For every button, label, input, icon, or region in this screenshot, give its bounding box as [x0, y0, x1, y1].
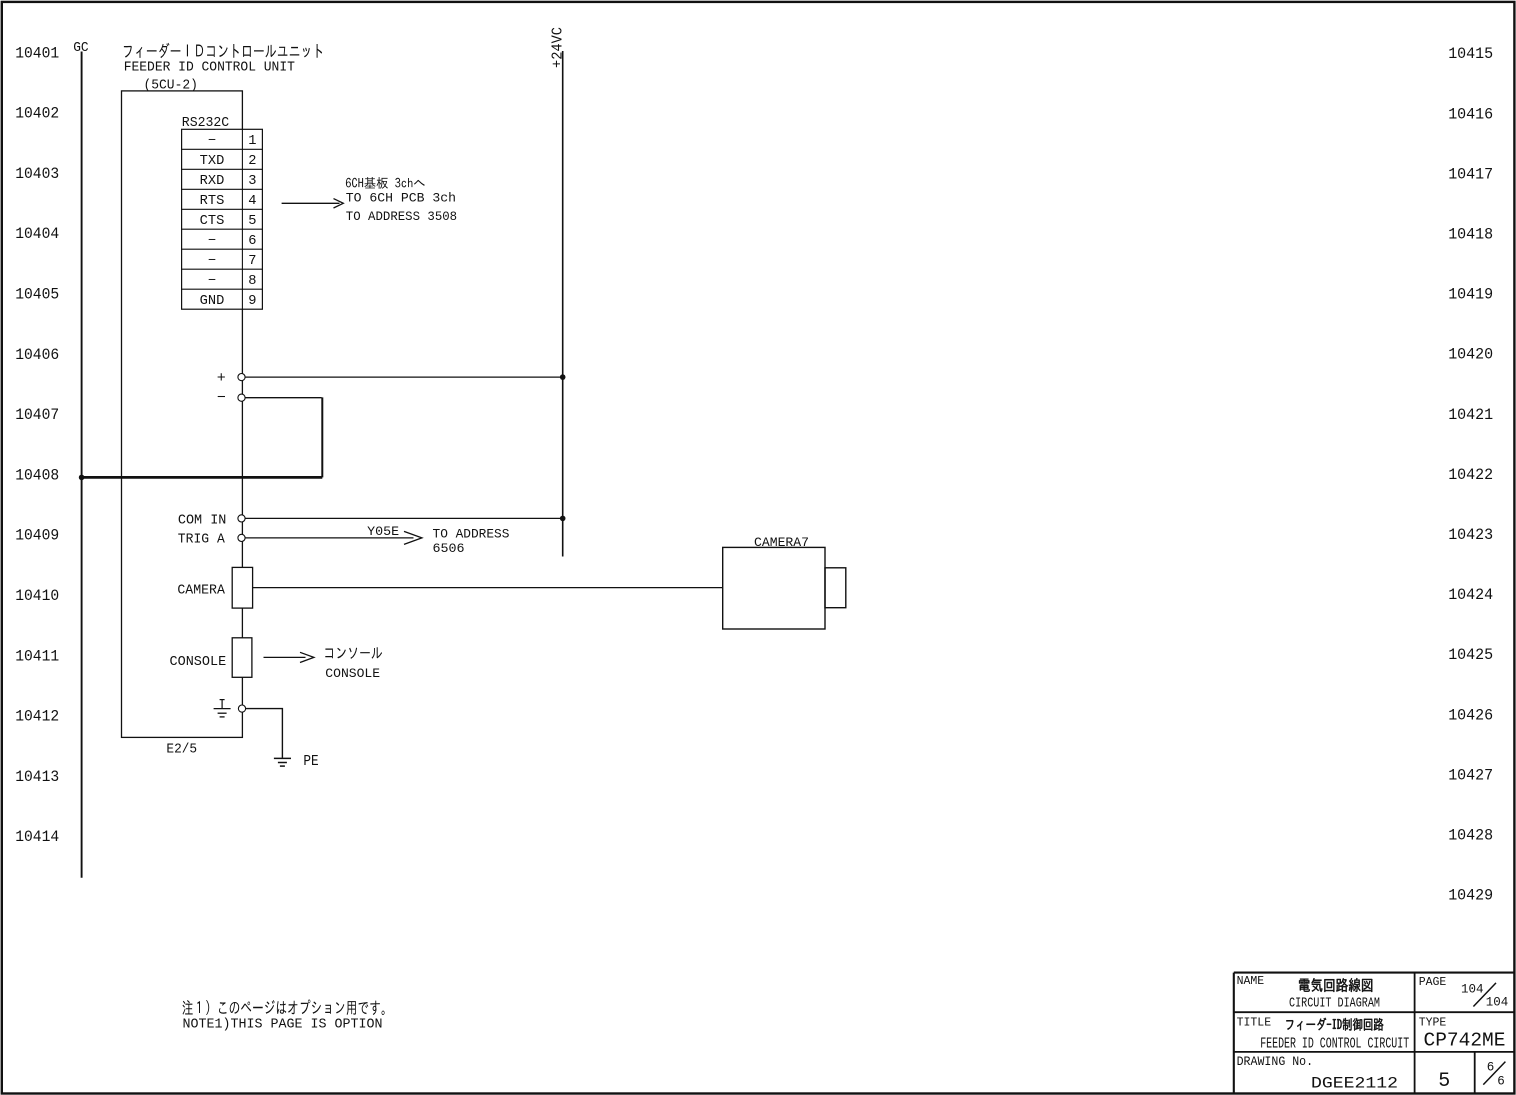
wire TRIG A to Y05E — [245, 537, 413, 539]
wire GC return (thick, row 10408) — [82, 476, 323, 479]
label console (japanese) — [325, 647, 382, 659]
svg-text:6: 6 — [1487, 1060, 1495, 1074]
junction on GC bus — [79, 475, 85, 481]
svg-text:10411: 10411 — [15, 647, 59, 665]
svg-text:10409: 10409 — [15, 527, 59, 545]
svg-text:E2/5: E2/5 — [166, 742, 197, 758]
svg-text:10406: 10406 — [15, 346, 59, 364]
junction COM IN on +24VC — [560, 516, 566, 522]
svg-text:PE: PE — [303, 754, 318, 770]
wire + to +24VC — [245, 376, 563, 378]
terminal TRIG A circle — [238, 534, 245, 541]
svg-text:−: − — [208, 234, 216, 249]
terminal - circle — [238, 394, 245, 401]
svg-text:10416: 10416 — [1448, 105, 1493, 123]
svg-text:6: 6 — [1497, 1075, 1505, 1089]
svg-text:4: 4 — [248, 194, 256, 209]
svg-text:RTS: RTS — [200, 194, 225, 209]
terminal COM IN circle — [238, 515, 245, 522]
svg-text:10422: 10422 — [1448, 466, 1493, 484]
svg-text:10426: 10426 — [1448, 706, 1493, 724]
control unit box 5CU-2 — [122, 91, 243, 738]
svg-text:10423: 10423 — [1448, 526, 1493, 544]
svg-text:TYPE: TYPE — [1419, 1017, 1447, 1030]
svg-text:+24VC: +24VC — [550, 27, 567, 68]
svg-text:−: − — [208, 274, 216, 289]
connector CAMERA body — [232, 567, 252, 608]
svg-text:10420: 10420 — [1448, 346, 1493, 364]
svg-text:NOTE1)THIS PAGE IS OPTION: NOTE1)THIS PAGE IS OPTION — [183, 1016, 383, 1032]
svg-text:104: 104 — [1461, 982, 1484, 996]
svg-text:CONSOLE: CONSOLE — [325, 666, 380, 681]
svg-text:10407: 10407 — [15, 406, 59, 424]
svg-text:104: 104 — [1486, 996, 1509, 1010]
svg-text:10415: 10415 — [1448, 45, 1493, 63]
svg-text:CIRCUIT DIAGRAM: CIRCUIT DIAGRAM — [1289, 995, 1380, 1011]
svg-text:DGEE2112: DGEE2112 — [1311, 1074, 1398, 1092]
wire GC vertical bus — [81, 52, 83, 878]
title block name japanese: circuit diagram — [1299, 978, 1372, 992]
title block frame — [1234, 972, 1514, 974]
svg-text:7: 7 — [248, 254, 256, 269]
svg-text:COM IN: COM IN — [178, 513, 227, 529]
svg-text:NAME: NAME — [1237, 975, 1265, 988]
device CAMERA7 body — [723, 547, 825, 629]
svg-text:10408: 10408 — [15, 466, 59, 484]
svg-text:−: − — [208, 134, 216, 149]
svg-text:6506: 6506 — [433, 541, 465, 556]
svg-text:5: 5 — [248, 214, 256, 229]
svg-text:5: 5 — [1438, 1070, 1450, 1093]
svg-text:−: − — [208, 254, 216, 269]
svg-text:TO ADDRESS: TO ADDRESS — [433, 527, 510, 542]
svg-text:TO ADDRESS 3508: TO ADDRESS 3508 — [346, 209, 457, 224]
junction + on +24VC — [560, 374, 566, 380]
svg-text:10414: 10414 — [15, 828, 59, 846]
svg-text:CTS: CTS — [200, 214, 225, 229]
svg-text:TRIG A: TRIG A — [178, 532, 225, 548]
label feeder ID control unit (japanese) — [124, 43, 322, 58]
svg-text:10404: 10404 — [15, 225, 59, 243]
svg-text:+: + — [217, 370, 226, 387]
svg-text:CAMERA: CAMERA — [177, 583, 225, 599]
wire CAMERA to CAMERA7 — [253, 587, 723, 589]
svg-text:10424: 10424 — [1448, 586, 1493, 604]
svg-text:10421: 10421 — [1448, 406, 1493, 424]
svg-text:10419: 10419 — [1448, 286, 1493, 304]
label 6CH PCB 3ch (japanese) — [346, 177, 425, 189]
svg-text:10403: 10403 — [15, 165, 59, 183]
svg-text:10405: 10405 — [15, 286, 59, 304]
svg-text:TITLE: TITLE — [1237, 1017, 1272, 1030]
svg-text:DRAWING No.: DRAWING No. — [1237, 1054, 1314, 1069]
terminal ground circle — [238, 705, 245, 712]
svg-text:10425: 10425 — [1448, 646, 1493, 664]
svg-text:3: 3 — [248, 174, 256, 189]
arrowhead console — [300, 652, 314, 662]
terminal + circle — [238, 374, 245, 381]
svg-text:PAGE: PAGE — [1419, 976, 1447, 989]
svg-text:1: 1 — [248, 134, 256, 149]
ground PE symbol — [274, 757, 291, 759]
chassis ground symbol — [220, 699, 225, 701]
svg-text:9: 9 — [248, 294, 256, 309]
device CAMERA7 lens stub — [825, 568, 846, 608]
arrowhead to 6CH PCB — [334, 199, 344, 208]
arrowhead Y05E — [404, 531, 422, 544]
wire arrow to console — [264, 656, 306, 658]
svg-text:CONSOLE: CONSOLE — [170, 654, 227, 670]
svg-text:−: − — [217, 390, 226, 407]
wire ground to PE — [246, 709, 283, 758]
svg-text:TO 6CH PCB 3ch: TO 6CH PCB 3ch — [346, 191, 456, 206]
svg-text:10402: 10402 — [15, 105, 59, 123]
svg-text:RXD: RXD — [200, 174, 225, 189]
page fraction slash — [1473, 983, 1496, 1007]
svg-text:10412: 10412 — [15, 708, 59, 726]
svg-text:10428: 10428 — [1448, 827, 1493, 845]
sheet fraction slash — [1483, 1062, 1505, 1085]
svg-text:CP742ME: CP742ME — [1424, 1029, 1506, 1051]
wire COM IN to +24VC — [245, 517, 563, 519]
title japanese: feeder ID control circuit — [1286, 1018, 1383, 1031]
wire arrow to 6CH PCB — [282, 202, 340, 204]
svg-text:8: 8 — [248, 274, 256, 289]
connector RS232C pin table — [182, 129, 263, 309]
note japanese: this page is option — [183, 1000, 385, 1016]
svg-text:10418: 10418 — [1448, 226, 1493, 244]
svg-text:10429: 10429 — [1448, 887, 1493, 905]
svg-text:6: 6 — [248, 234, 256, 249]
svg-text:GND: GND — [200, 294, 225, 309]
svg-text:2: 2 — [248, 154, 256, 169]
svg-text:10427: 10427 — [1448, 766, 1493, 784]
svg-text:FEEDER ID CONTROL UNIT: FEEDER ID CONTROL UNIT — [124, 61, 295, 76]
svg-text:TXD: TXD — [200, 154, 225, 169]
connector CONSOLE body — [232, 638, 252, 678]
svg-text:Y05E: Y05E — [367, 524, 399, 539]
wire +24VC vertical bus — [562, 51, 564, 557]
svg-text:10413: 10413 — [15, 768, 59, 786]
wire - loop to GC return — [245, 397, 322, 399]
svg-text:FEEDER ID CONTROL CIRCUIT: FEEDER ID CONTROL CIRCUIT — [1260, 1036, 1409, 1053]
svg-text:10401: 10401 — [15, 44, 59, 62]
svg-text:10417: 10417 — [1448, 165, 1493, 183]
svg-text:10410: 10410 — [15, 587, 59, 605]
